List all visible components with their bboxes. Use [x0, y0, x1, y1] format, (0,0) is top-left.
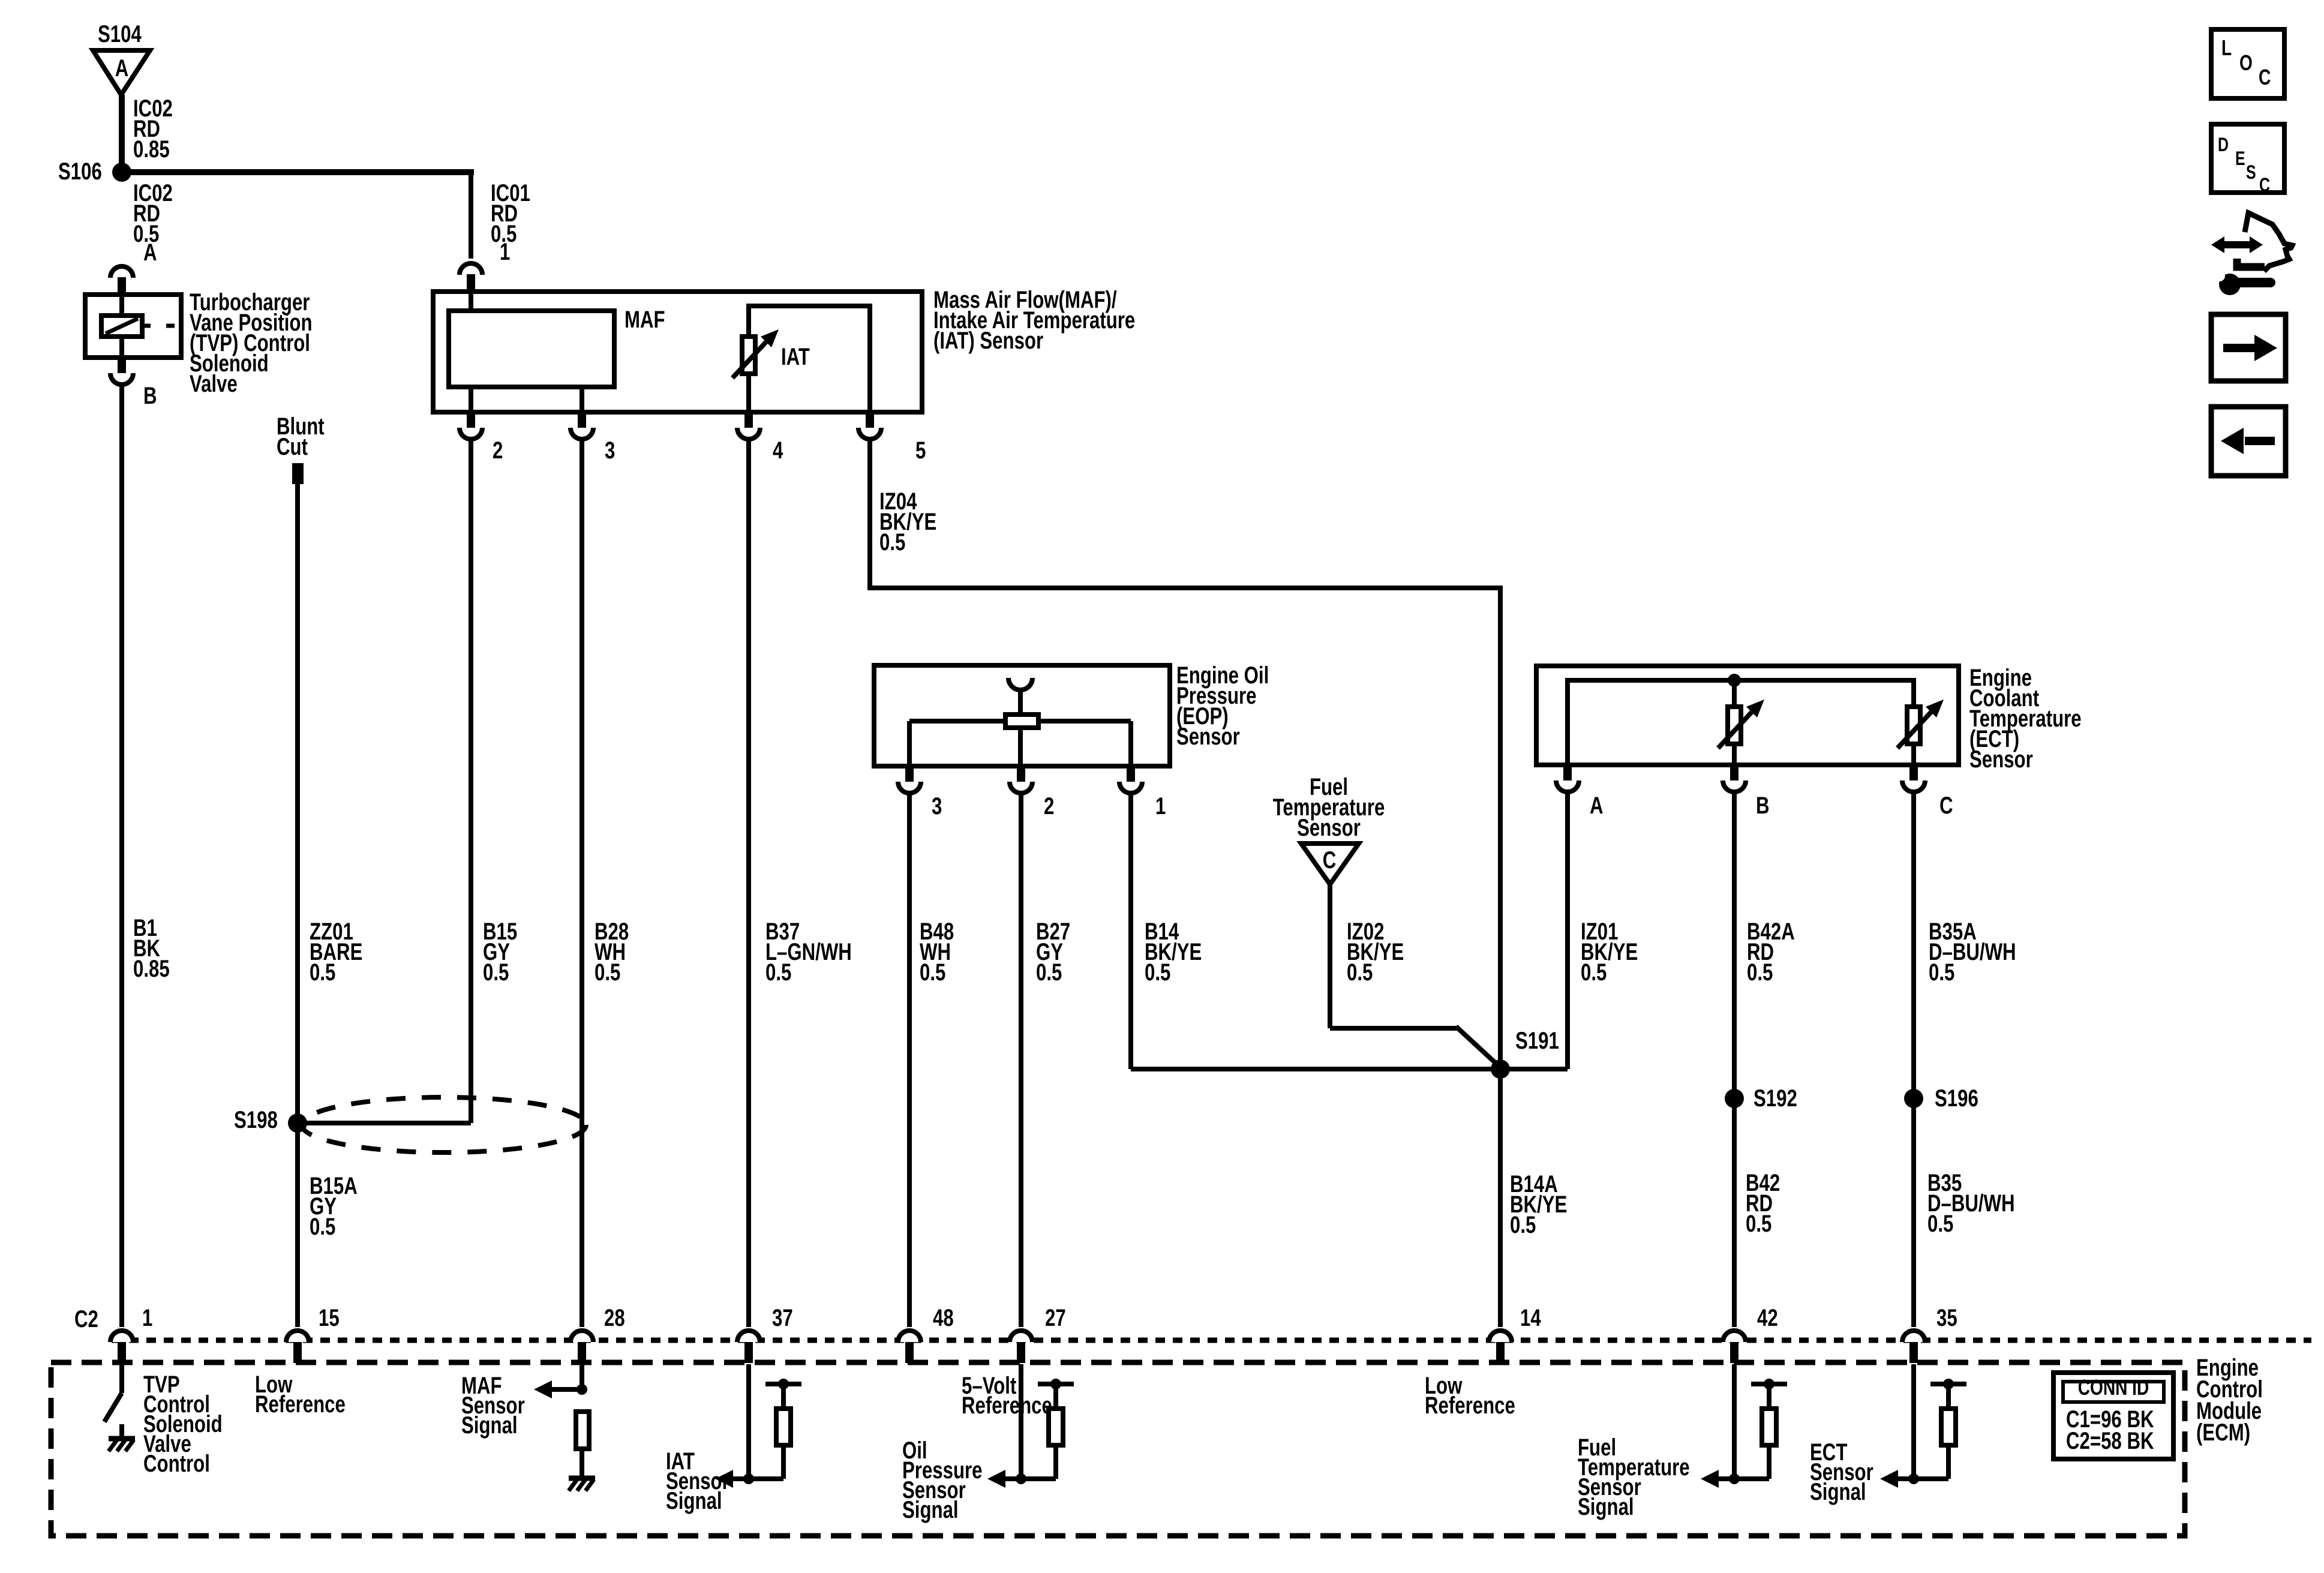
ECM pin 27 — [1010, 1304, 1066, 1363]
connector pin 5 MAF — [858, 412, 926, 464]
svg-text:Signal: Signal — [1810, 1478, 1866, 1505]
svg-text:0.85: 0.85 — [133, 136, 170, 163]
svg-text:E: E — [2235, 148, 2245, 170]
svg-text:C: C — [2259, 175, 2270, 196]
legend service icon — [2211, 213, 2292, 295]
label Mass Air Flow (MAF) Intake Air Temperature (IAT) Sensor — [933, 286, 1135, 354]
label IC02 RD 0.85 — [133, 95, 173, 163]
label IC01 RD 0.5 — [491, 179, 530, 247]
label B27 GY 0.5 — [1036, 918, 1070, 986]
svg-text:S106: S106 — [58, 158, 102, 185]
connector pin 4 MAF — [737, 412, 783, 464]
wire IZ02 BK/YE 0.5 — [1330, 884, 1502, 1069]
svg-text:Signal: Signal — [461, 1412, 518, 1439]
connector pin C ECT — [1902, 765, 1953, 819]
connector pin 3 MAF — [571, 412, 615, 464]
label Low Reference pin 15 — [255, 1371, 346, 1418]
svg-text:O: O — [2239, 51, 2253, 75]
label TVP Control Solenoid Valve Control — [143, 1371, 223, 1477]
junction S192 — [1725, 1085, 1797, 1112]
connector pin 1 EOP — [1119, 766, 1166, 819]
label IAT Sensor Signal — [666, 1448, 729, 1514]
connector pin 1 MAF — [460, 238, 510, 292]
svg-text:A: A — [115, 55, 129, 82]
svg-text:3: 3 — [932, 792, 942, 819]
svg-text:(ECM): (ECM) — [2196, 1419, 2250, 1446]
label B14 BK/YE 0.5 — [1145, 918, 1202, 986]
svg-text:37: 37 — [772, 1304, 793, 1331]
legend right arrow box — [2211, 314, 2286, 381]
legend left arrow box — [2211, 407, 2286, 476]
svg-text:S: S — [2246, 162, 2256, 184]
svg-text:14: 14 — [1520, 1304, 1541, 1331]
svg-text:Reference: Reference — [1425, 1392, 1515, 1419]
wire IZ01 BK/YE 0.5 — [1500, 791, 1568, 1069]
wire B15 GY 0.5 — [298, 439, 471, 1123]
svg-text:0.5: 0.5 — [483, 959, 509, 986]
svg-text:48: 48 — [933, 1304, 954, 1331]
svg-text:0.5: 0.5 — [1746, 1210, 1771, 1237]
label B42 RD 0.5 — [1746, 1169, 1780, 1237]
wire B28 WH 0.5 — [580, 439, 584, 1327]
label IC02 RD 0.5 — [133, 179, 173, 247]
svg-text:35: 35 — [1936, 1304, 1957, 1331]
svg-text:S104: S104 — [98, 20, 142, 47]
svg-text:5: 5 — [915, 437, 926, 464]
svg-text:4: 4 — [773, 437, 783, 464]
connector C2 dotted line — [74, 1305, 2311, 1340]
label Blunt Cut — [277, 413, 325, 460]
wire B1 BK 0.85 — [119, 384, 124, 1327]
svg-text:0.5: 0.5 — [879, 529, 905, 556]
svg-text:Reference: Reference — [962, 1392, 1052, 1419]
fuel temperature sensor signal tap — [1701, 1364, 1787, 1488]
solenoid coil TVP — [101, 295, 179, 358]
ECM dashed box — [51, 1362, 2185, 1536]
wire B27 GY 0.5 — [1019, 792, 1023, 1327]
svg-text:0.85: 0.85 — [133, 955, 170, 982]
wire ZZ01 BARE 0.5 — [295, 484, 300, 1327]
EOP sensor box — [874, 665, 1170, 766]
label B14A BK/YE 0.5 — [1510, 1170, 1567, 1238]
svg-text:MAF: MAF — [624, 306, 665, 333]
connector pin A TVP — [110, 239, 157, 295]
label Engine Control Module (ECM) — [2196, 1354, 2263, 1446]
junction S196 — [1904, 1085, 1978, 1112]
svg-text:42: 42 — [1757, 1304, 1778, 1331]
ECM pin 42 — [1723, 1304, 1778, 1363]
svg-text:Signal: Signal — [666, 1487, 722, 1514]
svg-text:D: D — [2218, 134, 2229, 156]
label 5-Volt Reference — [962, 1372, 1052, 1419]
solenoid valve TVP box — [85, 295, 181, 358]
svg-text:Sensor: Sensor — [1176, 723, 1240, 750]
svg-text:0.5: 0.5 — [1929, 959, 1954, 986]
ECT thermistor 1 — [1718, 680, 1764, 765]
wire B42A RD 0.5 — [1732, 791, 1737, 1098]
svg-text:1: 1 — [500, 238, 510, 265]
splice S104 triangle — [93, 20, 150, 95]
EOP transducer — [909, 678, 1131, 766]
svg-text:C2: C2 — [74, 1305, 98, 1332]
ECM pin 28 — [571, 1304, 625, 1363]
wire B14 BK/YE 0.5 — [1131, 792, 1500, 1069]
ECM pin 35 — [1902, 1304, 1957, 1363]
svg-text:IAT: IAT — [781, 343, 810, 370]
svg-text:CONN ID: CONN ID — [2078, 1376, 2149, 1400]
label B48 WH 0.5 — [920, 918, 954, 986]
ECM pin 48 — [898, 1304, 954, 1363]
svg-text:L: L — [2221, 36, 2232, 60]
svg-text:S191: S191 — [1515, 1027, 1559, 1054]
wire B48 WH 0.5 — [907, 792, 912, 1327]
svg-text:0.5: 0.5 — [1347, 959, 1373, 986]
wire B35A D-BU/WH 0.5 — [1911, 791, 1916, 1098]
label Engine Oil Pressure (EOP) Sensor — [1176, 662, 1269, 750]
label IZ02 BK/YE 0.5 — [1347, 918, 1404, 986]
svg-text:0.5: 0.5 — [1747, 959, 1773, 986]
ECT sensor box — [1536, 666, 1959, 765]
ground TVP — [109, 1439, 135, 1451]
label B35A D-BU/WH 0.5 — [1929, 918, 2016, 986]
MAF element — [449, 292, 665, 412]
svg-text:0.5: 0.5 — [310, 959, 335, 986]
label B42A RD 0.5 — [1747, 918, 1795, 986]
ECT thermistor 2 — [1897, 700, 1944, 765]
label B28 WH 0.5 — [594, 918, 629, 986]
svg-text:S196: S196 — [1935, 1085, 1978, 1112]
svg-text:0.5: 0.5 — [594, 959, 620, 986]
svg-text:Sensor: Sensor — [1969, 746, 2033, 773]
svg-text:0.5: 0.5 — [1145, 959, 1170, 986]
fuel temperature sensor triangle — [1301, 843, 1359, 884]
wire B37 L-GN/WH 0.5 — [746, 439, 751, 1327]
connector pin A ECT — [1556, 765, 1604, 819]
legend LOC box — [2211, 29, 2284, 98]
label ECT Sensor Signal — [1810, 1439, 1873, 1505]
wire B15A GY 0.5 — [295, 1123, 300, 1327]
junction S191 — [1491, 1027, 1559, 1079]
svg-text:Valve: Valve — [190, 370, 238, 397]
label B15 GY 0.5 — [483, 918, 517, 986]
oil pressure sensor signal tap — [987, 1364, 1074, 1488]
wire B35 D-BU/WH 0.5 — [1911, 1098, 1916, 1327]
MAF IAT sensor box — [433, 292, 922, 412]
svg-text:Cut: Cut — [277, 433, 308, 460]
svg-text:3: 3 — [605, 437, 615, 464]
junction S106 — [58, 158, 131, 185]
label B35 D-BU/WH 0.5 — [1927, 1169, 2015, 1237]
svg-text:Signal: Signal — [902, 1496, 959, 1523]
CONN ID table — [2053, 1373, 2173, 1459]
svg-text:2: 2 — [493, 437, 503, 464]
label B37 L-GN/WH 0.5 — [765, 918, 852, 986]
svg-text:A: A — [143, 239, 157, 266]
svg-text:B: B — [1756, 792, 1770, 819]
svg-text:S198: S198 — [234, 1106, 278, 1133]
svg-text:0.5: 0.5 — [1510, 1211, 1536, 1238]
legend DESC box — [2211, 124, 2284, 196]
svg-text:0.5: 0.5 — [1036, 959, 1062, 986]
IAT sensor signal tap — [715, 1364, 801, 1488]
svg-text:1: 1 — [1155, 792, 1166, 819]
ECM pin 1 — [110, 1304, 152, 1363]
connector pin 3 EOP — [898, 766, 942, 819]
connector pin B TVP — [110, 358, 157, 409]
label MAF Sensor Signal — [461, 1372, 525, 1439]
TVP control switch — [104, 1364, 122, 1439]
svg-text:27: 27 — [1045, 1304, 1066, 1331]
ECT sensor signal tap — [1880, 1364, 1966, 1488]
svg-text:Reference: Reference — [255, 1391, 346, 1418]
ECM pin 37 — [737, 1304, 793, 1363]
svg-text:Signal: Signal — [1578, 1493, 1634, 1520]
label Oil Pressure Sensor Signal — [902, 1437, 983, 1523]
wire IC01 RD 0.5 — [119, 169, 474, 259]
wire IZ04 BK/YE 0.5 — [867, 439, 1503, 1069]
svg-text:C2=58 BK: C2=58 BK — [2066, 1427, 2154, 1454]
label B1 BK 0.85 — [133, 914, 170, 982]
ECM pin 15 — [286, 1304, 340, 1363]
ECT internal wiring — [1565, 674, 1916, 765]
svg-text:0.5: 0.5 — [765, 959, 791, 986]
blunt cut terminal — [292, 463, 304, 484]
svg-text:0.5: 0.5 — [920, 959, 945, 986]
label Turbocharger Vane Position (TVP) Control Solenoid Valve — [190, 289, 313, 397]
label B15A GY 0.5 — [310, 1172, 358, 1240]
label ZZ01 BARE 0.5 — [310, 918, 362, 986]
svg-text:1: 1 — [142, 1304, 152, 1331]
connector pin 2 EOP — [1010, 766, 1054, 819]
svg-text:0.5: 0.5 — [1927, 1210, 1953, 1237]
svg-text:S192: S192 — [1753, 1085, 1797, 1112]
svg-text:0.5: 0.5 — [1581, 959, 1607, 986]
svg-text:C: C — [2259, 65, 2271, 89]
wire B14A BK/YE 0.5 — [1498, 1069, 1503, 1327]
ECM pin 14 — [1489, 1304, 1541, 1363]
label Low Reference pin 14 — [1425, 1372, 1515, 1419]
label Fuel Temperature Sensor Signal — [1578, 1434, 1690, 1520]
wire B42 RD 0.5 — [1732, 1098, 1737, 1327]
IAT thermistor — [732, 306, 872, 412]
svg-text:2: 2 — [1044, 792, 1054, 819]
svg-text:0.5: 0.5 — [310, 1213, 335, 1240]
wire IC02 RD 0.85 — [119, 95, 125, 172]
label IZ04 BK/YE 0.5 — [879, 488, 936, 556]
label Fuel Temperature Sensor — [1273, 773, 1385, 841]
svg-text:28: 28 — [604, 1304, 625, 1331]
connector pin 2 MAF — [460, 412, 503, 464]
label Engine Coolant Temperature (ECT) Sensor — [1969, 664, 2082, 773]
svg-text:Sensor: Sensor — [1297, 814, 1361, 841]
svg-text:C: C — [1939, 792, 1953, 819]
connector pin B ECT — [1723, 765, 1770, 819]
ground MAF tap — [569, 1478, 595, 1491]
label IZ01 BK/YE 0.5 — [1581, 918, 1638, 986]
svg-text:B: B — [143, 382, 157, 409]
svg-text:Control: Control — [143, 1450, 210, 1477]
svg-text:A: A — [1590, 792, 1604, 819]
svg-text:(IAT) Sensor: (IAT) Sensor — [933, 327, 1043, 354]
MAF sensor signal tap — [534, 1364, 589, 1478]
svg-text:C: C — [1323, 846, 1337, 873]
svg-text:15: 15 — [319, 1304, 340, 1331]
junction S198 — [234, 1097, 586, 1152]
